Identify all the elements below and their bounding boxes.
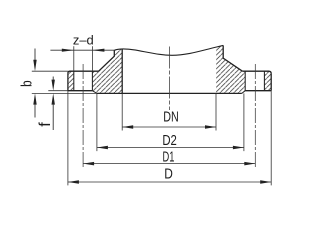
b extension top: [32, 70, 68, 72]
hub slope left: [99, 50, 115, 71]
b dimension line top: [34, 49, 36, 61]
flange top left: [68, 71, 99, 73]
face step left: [92, 91, 97, 94]
b dimension line bottom: [33, 93, 36, 104]
underside right: [245, 90, 271, 92]
svg-text:z–d: z–d: [73, 32, 94, 47]
D2 extension lines: [97, 93, 244, 151]
z-d left arrow: [62, 49, 74, 52]
z-d right arrow: [92, 49, 104, 52]
svg-text:D2: D2: [162, 132, 177, 149]
hatch right rim: [264, 71, 271, 91]
hatch left web: [92, 49, 122, 93]
svg-text:DN: DN: [163, 109, 179, 126]
f dimension arrows: [52, 77, 54, 81]
D extension lines: [68, 91, 271, 186]
bolt hole axis left: [82, 64, 84, 167]
face bottom: [97, 92, 242, 94]
f extension line: [48, 90, 68, 92]
svg-text:D: D: [164, 166, 173, 183]
hatch left rim: [68, 71, 74, 91]
z-d extension lines: [74, 46, 93, 71]
svg-text:f: f: [37, 122, 54, 127]
DN extension lines: [122, 93, 216, 130]
hub outer wall right: [223, 45, 242, 71]
D1 dimension line: [83, 163, 255, 165]
D2 dimension line: [97, 147, 244, 149]
bore wall left: [121, 49, 123, 93]
svg-text:D1: D1: [163, 148, 175, 165]
break wavy line: [114, 45, 223, 55]
flange right edge: [270, 74, 272, 91]
flange top right: [242, 71, 271, 74]
bolt hole left edges: [74, 71, 93, 91]
b f extension bottom: [32, 92, 97, 94]
svg-text:b: b: [19, 80, 36, 87]
bolt hole axis right: [254, 64, 256, 167]
underside left: [68, 90, 93, 92]
bolt hole right edges: [245, 71, 264, 91]
flange left edge: [67, 73, 69, 91]
center axis: [168, 47, 170, 111]
face step right: [242, 91, 245, 94]
hatch right web: [216, 45, 245, 93]
z-d dimension line: [50, 49, 114, 51]
D dimension line: [68, 181, 271, 183]
DN dimension line: [122, 126, 216, 128]
